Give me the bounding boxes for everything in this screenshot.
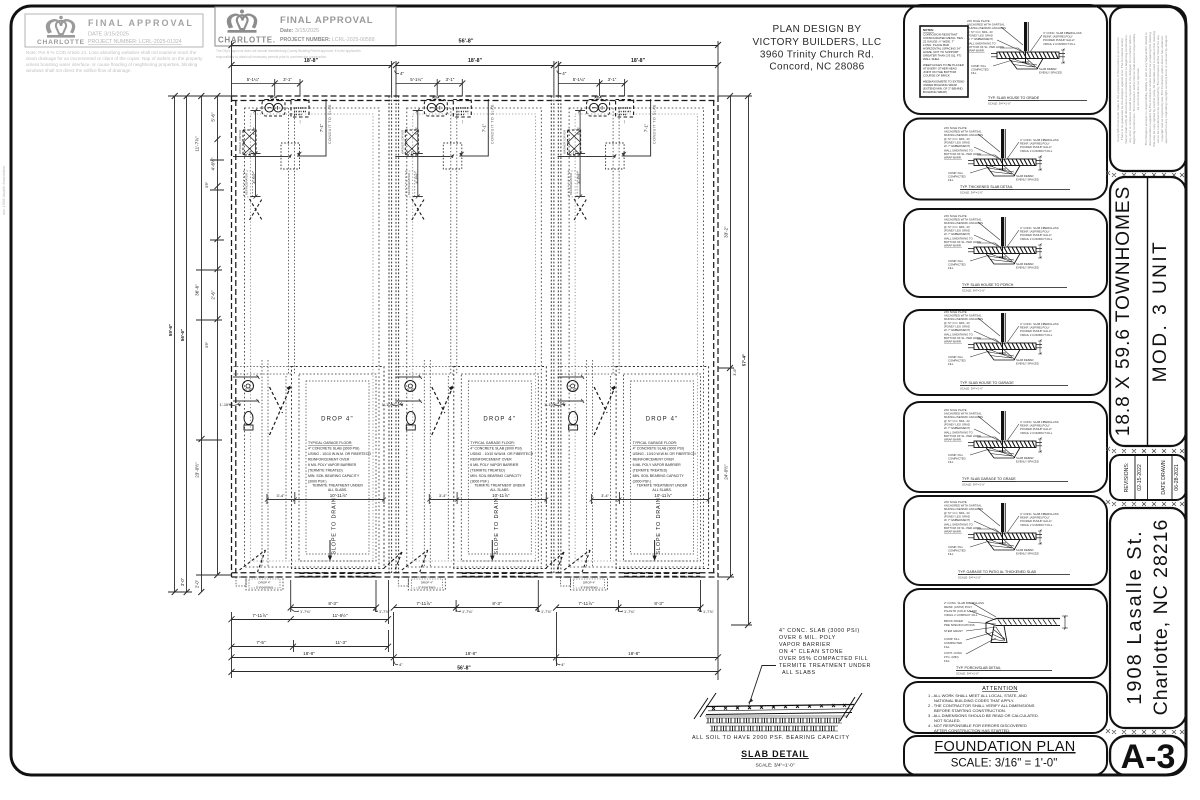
svg-text:2'-6": 2'-6" xyxy=(211,290,216,300)
svg-text:3'9": 3'9" xyxy=(205,341,209,348)
svg-text:VICTORY BUILDERS, LLC: VICTORY BUILDERS, LLC xyxy=(752,37,881,48)
svg-text:3960 Trinity Church Rd.: 3960 Trinity Church Rd. xyxy=(760,50,874,61)
party wall 1 (dotted double) xyxy=(389,96,399,573)
svg-text:18'-8": 18'-8" xyxy=(468,58,483,64)
perimeter wall bottom xyxy=(232,573,719,577)
svg-text:8'-3": 8'-3" xyxy=(492,601,502,606)
svg-text:3'-0": 3'-0" xyxy=(180,577,185,586)
top dimensions 18'-8" each unit xyxy=(229,61,722,96)
svg-text:AFTER CONSTRUCTION HAS STARTED: AFTER CONSTRUCTION HAS STARTED. xyxy=(934,728,1010,733)
detail panel 6 xyxy=(904,496,1107,585)
svg-text:ALL SLABS: ALL SLABS xyxy=(782,670,816,676)
svg-text:unless boosting water interfac: unless boosting water interface, or caus… xyxy=(26,62,198,67)
svg-text:18'-8": 18'-8" xyxy=(628,651,640,656)
svg-text:3'-1": 3'-1" xyxy=(608,77,617,82)
svg-text:FINAL APPROVAL: FINAL APPROVAL xyxy=(88,18,194,28)
disclaimer panel xyxy=(1110,7,1186,171)
svg-text:VIRGIL 2 COMPACT FILL: VIRGIL 2 COMPACT FILL xyxy=(944,613,978,617)
attention panel xyxy=(904,682,1107,733)
end break marks xyxy=(694,693,716,719)
svg-text:DATE 3/15/2025: DATE 3/15/2025 xyxy=(88,32,129,38)
leader 1'-7 labels row A xyxy=(300,610,714,614)
svg-text:SCALE: 3/4"=1'-0": SCALE: 3/4"=1'-0" xyxy=(960,191,983,195)
detail panel 7 xyxy=(904,589,1107,678)
unit 1 interior xyxy=(220,96,387,590)
svg-text:COURSE OF BRICK: COURSE OF BRICK xyxy=(923,74,950,78)
svg-text:BUILDING WRAP): BUILDING WRAP) xyxy=(923,90,947,94)
right dimension chain xyxy=(718,93,752,628)
svg-text:11'-3": 11'-3" xyxy=(335,640,347,645)
svg-text:TERMITE TREATMENT UNDER: TERMITE TREATMENT UNDER xyxy=(779,663,871,669)
party wall bottom door swings xyxy=(384,552,564,570)
svg-text:FILL: FILL xyxy=(944,659,950,663)
svg-text:56'-8": 56'-8" xyxy=(457,666,471,672)
svg-text:WALL SHEA: WALL SHEA xyxy=(923,57,939,61)
chain pattern gap 2 xyxy=(1112,449,1184,453)
stamp 2 note lines xyxy=(216,49,361,59)
bottom dim row B xyxy=(229,580,392,624)
foundation plan title panel xyxy=(904,736,1107,775)
disclaimer text columns (rotated) xyxy=(1116,31,1168,147)
svg-text:SCALE: 3/4"=1'-0": SCALE: 3/4"=1'-0" xyxy=(956,672,979,676)
svg-text:18'-8": 18'-8" xyxy=(304,58,319,64)
svg-text:1'-7¾": 1'-7¾" xyxy=(624,610,635,614)
svg-text:11'-6½": 11'-6½" xyxy=(332,612,348,618)
svg-text:3'-6": 3'-6" xyxy=(733,368,737,376)
unit 2 interior xyxy=(382,96,549,590)
bottom dim row C xyxy=(229,630,392,652)
svg-text:PRE SPECIFICATIONS: PRE SPECIFICATIONS xyxy=(944,623,975,627)
slab top/bottom lines xyxy=(706,705,854,707)
svg-text:SCALE: 3/4"=1'-0": SCALE: 3/4"=1'-0" xyxy=(962,483,985,487)
svg-text:56'-8": 56'-8" xyxy=(459,39,474,45)
svg-text:7'-11⅞": 7'-11⅞" xyxy=(578,601,594,606)
svg-text:for errors that are not report: for errors that are not reported. xyxy=(1136,68,1140,110)
svg-text:OVER 95% COMPACTED FILL: OVER 95% COMPACTED FILL xyxy=(779,656,868,662)
svg-text:3'-1": 3'-1" xyxy=(283,77,292,82)
svg-text:DATE DRAWN: DATE DRAWN xyxy=(1161,460,1167,495)
slab note leader xyxy=(749,666,776,705)
svg-text:7'-5": 7'-5" xyxy=(256,640,266,645)
svg-text:4": 4" xyxy=(562,71,567,76)
gravel hatch rows xyxy=(705,716,847,731)
svg-text:VAPOR BARRIER: VAPOR BARRIER xyxy=(779,642,831,648)
svg-text:06-28-2021: 06-28-2021 xyxy=(1174,464,1180,491)
svg-text:1'-7⅞": 1'-7⅞" xyxy=(703,610,714,614)
svg-text:11'-7⅞": 11'-7⅞" xyxy=(195,136,200,152)
revisions panel xyxy=(1110,455,1186,500)
svg-text:SCALE: 3/4"=1'-0": SCALE: 3/4"=1'-0" xyxy=(988,102,1011,106)
svg-text:5'-6": 5'-6" xyxy=(211,112,216,122)
svg-text:SCALE: 3/4"=1'-0": SCALE: 3/4"=1'-0" xyxy=(755,763,794,769)
detail panel 5 xyxy=(904,402,1107,492)
svg-text:SLAB DETAIL: SLAB DETAIL xyxy=(741,749,809,759)
unit 3 interior xyxy=(544,96,711,590)
svg-text:Concord, NC 28086: Concord, NC 28086 xyxy=(769,62,864,73)
stamp 1 note paragraph xyxy=(26,50,203,73)
svg-text:23'-0½": 23'-0½" xyxy=(194,462,200,478)
svg-text:TYP. SLAB HOUSE TO GRADE: TYP. SLAB HOUSE TO GRADE xyxy=(988,96,1040,100)
svg-text:TYP. SLAB HOUSE TO PORCH: TYP. SLAB HOUSE TO PORCH xyxy=(962,283,1014,287)
svg-text:18'-8": 18'-8" xyxy=(465,651,477,656)
sub dims 5'-1 1/4 and 3'-1 per unit xyxy=(232,79,628,96)
svg-text:TYP. PORCH/SLAB DETAIL: TYP. PORCH/SLAB DETAIL xyxy=(956,666,1001,670)
svg-text:STEM GRANT: STEM GRANT xyxy=(944,629,963,633)
gutter chain marks xyxy=(1106,171,1110,733)
porch slab xyxy=(986,616,1068,643)
svg-text:ALL SOIL TO HAVE 2000 PSF. BEA: ALL SOIL TO HAVE 2000 PSF. BEARING CAPAC… xyxy=(692,735,850,741)
svg-text:CHARLOTTE: CHARLOTTE xyxy=(37,39,85,46)
party wall 2 xyxy=(551,96,561,573)
project title panel xyxy=(1110,177,1186,446)
svg-text:1'-7¾": 1'-7¾" xyxy=(300,610,311,614)
svg-text:The City's approval does not i: The City's approval does not include Mec… xyxy=(216,49,361,53)
svg-text:4": 4" xyxy=(399,662,403,667)
svg-text:2'-0": 2'-0" xyxy=(195,579,200,588)
svg-text:1908 Lasalle St.: 1908 Lasalle St. xyxy=(1124,529,1146,704)
address panel xyxy=(1110,508,1186,728)
porch detail drawing xyxy=(944,601,984,663)
svg-text:7'-11⅞": 7'-11⅞" xyxy=(416,601,432,606)
svg-text:Charlotte, NC 28216: Charlotte, NC 28216 xyxy=(1150,519,1172,716)
slab detail drawing xyxy=(694,693,862,721)
svg-text:PROJECT NUMBER: LCRL-2025-0132: PROJECT NUMBER: LCRL-2025-01324 xyxy=(88,39,182,45)
svg-text:56'-6": 56'-6" xyxy=(180,329,185,341)
svg-text:approval from any originating: approval from any originating copyright … xyxy=(1164,35,1168,144)
svg-text:MOD. 3 UNIT: MOD. 3 UNIT xyxy=(1150,240,1171,383)
stamp 1 crown logo xyxy=(46,16,75,38)
svg-text:PROJECT NUMBER: LCRL-2025-0058: PROJECT NUMBER: LCRL-2025-00588 xyxy=(280,37,375,43)
svg-text:FINAL APPROVAL: FINAL APPROVAL xyxy=(280,15,373,26)
sheet number panel A-3 xyxy=(1110,736,1186,775)
left dimension chain lines xyxy=(168,93,232,595)
svg-text:18'-8": 18'-8" xyxy=(303,651,315,656)
svg-text:OVER 6 MIL. POLY: OVER 6 MIL. POLY xyxy=(779,635,836,641)
stamp 2 crown logo xyxy=(227,10,257,33)
svg-text:A-3: A-3 xyxy=(1121,738,1176,776)
stamp 2 approval box (dark gray) xyxy=(215,7,396,46)
svg-text:1'-7¾": 1'-7¾" xyxy=(462,610,473,614)
bottom dim row D (18'-8 each) xyxy=(229,580,722,680)
svg-text:18'-8": 18'-8" xyxy=(631,58,646,64)
svg-text:SCALE: 3/4"=1'-0": SCALE: 3/4"=1'-0" xyxy=(960,387,983,391)
svg-text:Note: Per 9 % COD Article 21.: Note: Per 9 % COD Article 21. Lose absor… xyxy=(26,50,197,55)
slab note text xyxy=(779,628,871,676)
svg-text:4": 4" xyxy=(561,662,565,667)
svg-text:3'-1": 3'-1" xyxy=(446,77,455,82)
bottom dim row A (8'-3 garage doors) xyxy=(288,580,704,612)
svg-text:SCALE: 3/16" = 1'-0": SCALE: 3/16" = 1'-0" xyxy=(951,758,1058,770)
notes box xyxy=(920,26,968,97)
svg-text:TYP. SLAB HOUSE TO GARAGE: TYP. SLAB HOUSE TO GARAGE xyxy=(960,381,1014,385)
svg-text:SCALE: 3/4"=1'-0": SCALE: 3/4"=1'-0" xyxy=(958,576,981,580)
svg-text:02-15-2022: 02-15-2022 xyxy=(1137,464,1143,491)
svg-text:36'-6": 36'-6" xyxy=(195,284,200,296)
svg-text:TYP. THICKENED SLAB DETAIL: TYP. THICKENED SLAB DETAIL xyxy=(960,185,1013,189)
svg-text:8'-3": 8'-3" xyxy=(328,601,338,606)
svg-text:3'9": 3'9" xyxy=(205,181,209,188)
svg-text:down drainage for an increment: down drainage for an incremented or clie… xyxy=(26,56,203,61)
chain pattern gap 1 xyxy=(1112,173,1184,177)
svg-text:24'-0½": 24'-0½" xyxy=(723,464,729,480)
svg-text:18.8 X 59.6 TOWNHOMES: 18.8 X 59.6 TOWNHOMES xyxy=(1113,186,1134,437)
svg-text:REVISIONS:: REVISIONS: xyxy=(1124,463,1130,493)
svg-text:Date: 3/15/2025: Date: 3/15/2025 xyxy=(280,28,319,34)
perimeter wall top (dashed double) xyxy=(232,96,719,101)
perimeter wall left xyxy=(232,96,236,577)
svg-text:57'-4": 57'-4" xyxy=(742,354,747,366)
svg-text:1'-7⅞": 1'-7⅞" xyxy=(541,610,552,614)
left chain labels (rotated) xyxy=(168,112,216,588)
stamp 1 approval box (light gray) xyxy=(25,14,203,47)
svg-text:TYP. GARAGE TO PATIO AL THICKE: TYP. GARAGE TO PATIO AL THICKENED SLAB xyxy=(958,570,1037,574)
svg-text:TYP. SLAB GARAGE TO GRADE: TYP. SLAB GARAGE TO GRADE xyxy=(962,477,1016,481)
chain pattern gap 3 xyxy=(1112,502,1184,506)
chain pattern gap 4 xyxy=(1112,730,1184,734)
svg-text:5'-1¼": 5'-1¼" xyxy=(247,77,260,82)
svg-text:4'-6½": 4'-6½" xyxy=(210,157,216,170)
wire mesh x marks xyxy=(712,704,846,710)
svg-text:5'-1¼": 5'-1¼" xyxy=(573,77,586,82)
svg-text:windows shall not direct the e: windows shall not direct the edifice flo… xyxy=(26,68,132,73)
svg-text:4" CONC. SLAB (3000 PSI): 4" CONC. SLAB (3000 PSI) xyxy=(779,628,860,634)
svg-text:PLAN DESIGN BY: PLAN DESIGN BY xyxy=(773,24,862,35)
svg-text:NOTES:: NOTES: xyxy=(923,28,934,32)
perimeter wall right xyxy=(714,96,718,577)
top dimension 56'-8" xyxy=(229,41,722,96)
svg-text:CHARLOTTE.: CHARLOTTE. xyxy=(218,36,276,45)
bottom dim row E (56'-8 total) xyxy=(229,666,722,678)
svg-text:SCALE: 3/4"=1'-0": SCALE: 3/4"=1'-0" xyxy=(962,289,985,293)
svg-text:4": 4" xyxy=(400,71,405,76)
svg-text:5'-1¼": 5'-1¼" xyxy=(410,77,423,82)
svg-text:FOUNDATION PLAN: FOUNDATION PLAN xyxy=(934,739,1075,755)
plan design by text block xyxy=(752,24,881,73)
svg-text:asc-1908-lasalle-foundation: asc-1908-lasalle-foundation xyxy=(1,166,6,215)
svg-text:8'-3": 8'-3" xyxy=(654,601,664,606)
svg-text:ON 4" CLEAN STONE: ON 4" CLEAN STONE xyxy=(779,649,843,655)
detail panel 3 xyxy=(904,209,1107,297)
detail panel 1 xyxy=(904,5,1107,114)
svg-text:7'-11⅞": 7'-11⅞" xyxy=(252,613,268,618)
svg-text:FILL: FILL xyxy=(944,645,950,649)
svg-text:ATTENTION: ATTENTION xyxy=(982,686,1018,692)
svg-text:33'-2": 33'-2" xyxy=(724,226,729,238)
svg-text:59'-6": 59'-6" xyxy=(168,324,173,336)
detail panel 2 xyxy=(904,119,1107,200)
detail panel 4 xyxy=(904,310,1107,395)
